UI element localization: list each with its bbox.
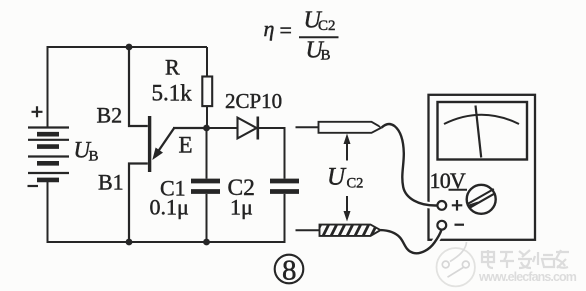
wire resistor top: [206, 47, 208, 77]
dimension arrow up: [346, 142, 348, 161]
meter display window: [438, 102, 528, 160]
meter knob: [467, 185, 496, 214]
capacitor C2 bottom plate: [270, 189, 299, 194]
wire diode cathode to C2 branch: [258, 128, 285, 179]
node C1 bottom junction: [203, 239, 210, 246]
wire left rail upper: [47, 46, 49, 127]
bottom probe hatch: [314, 222, 386, 238]
diode VD 2CP10 triangle: [238, 118, 257, 139]
svg-text:B: B: [89, 149, 99, 165]
node bottom-left junction: [126, 239, 133, 246]
battery B minus plate 3: [37, 161, 59, 166]
label UB: [74, 138, 99, 165]
battery B plus plate 2: [28, 139, 69, 141]
wire left rail lower: [47, 180, 49, 242]
wire emitter row: [173, 127, 207, 129]
wire bottom rail: [47, 241, 285, 243]
top probe body: [319, 122, 382, 133]
battery B minus plate 4: [37, 178, 59, 183]
node emitter junction: [203, 125, 210, 132]
capacitor C2 top plate: [270, 179, 299, 184]
resistor R body: [202, 77, 212, 107]
formula eta = Uc2/Ub: [264, 8, 336, 64]
transistor V1 bar: [148, 116, 151, 172]
transistor V1 emitter arrow: [152, 148, 163, 161]
svg-text:B2: B2: [97, 103, 123, 128]
capacitor C1 bottom plate: [191, 189, 220, 194]
bottom probe cable: [381, 230, 442, 253]
svg-text:η: η: [264, 16, 275, 41]
battery B plus plate 3: [28, 155, 69, 157]
svg-text:0.1μ: 0.1μ: [150, 195, 189, 220]
wire resistor bottom: [206, 106, 208, 128]
minus sign: [455, 224, 465, 226]
watermark text 电子发烧友 (approximated strokes): [482, 250, 569, 268]
plus sign: [452, 200, 463, 211]
top probe cable: [382, 124, 437, 206]
battery plus sign: [32, 106, 43, 117]
battery B plus plate 4: [28, 172, 69, 174]
svg-text:2CP10: 2CP10: [225, 89, 282, 113]
wire top probe stub: [296, 126, 319, 128]
svg-text:8: 8: [282, 255, 297, 287]
meter scale arc: [444, 115, 519, 124]
svg-text:C2: C2: [318, 18, 336, 34]
wire base B2: [129, 46, 148, 126]
dimension arrow down: [346, 196, 348, 212]
meter minus terminal: [437, 221, 446, 230]
svg-text:1μ: 1μ: [230, 195, 253, 220]
knob slots: [468, 189, 495, 208]
meter plus terminal: [437, 201, 446, 210]
bottom probe body (hatched): [320, 225, 381, 236]
svg-text:E: E: [179, 133, 193, 158]
svg-text:=: =: [280, 18, 292, 43]
svg-text:B1: B1: [98, 170, 124, 195]
wire bottom probe stub: [296, 229, 320, 231]
battery B minus plate 1: [37, 132, 59, 137]
svg-text:R: R: [165, 55, 180, 80]
svg-text:C2: C2: [347, 176, 364, 192]
wire C1 bottom: [206, 194, 208, 242]
wire diode anode: [207, 127, 239, 129]
node top junction: [126, 44, 133, 51]
formula fraction bar: [299, 36, 339, 38]
meter needle: [476, 106, 482, 158]
svg-text:U: U: [327, 164, 347, 191]
watermark logo: [437, 242, 475, 286]
battery minus sign: [28, 185, 39, 187]
meter M case: [429, 95, 536, 240]
wire C1 top: [206, 128, 208, 179]
label UC2: [327, 164, 363, 192]
battery B minus plate 2: [37, 144, 59, 149]
battery B plus plate 1: [28, 126, 69, 128]
svg-text:5.1k: 5.1k: [152, 81, 193, 106]
svg-text:B: B: [321, 48, 331, 64]
svg-text:www.elecfans.com: www.elecfans.com: [478, 270, 577, 284]
capacitor C1 top plate: [191, 179, 220, 184]
transistor V1 emitter line: [157, 128, 175, 154]
wire C2 bottom: [284, 194, 286, 243]
diode VD cathode bar: [256, 117, 259, 140]
figure number 8: [275, 255, 304, 284]
wire base B1: [129, 164, 148, 243]
10V underline: [449, 189, 468, 191]
wire top rail: [48, 46, 208, 48]
